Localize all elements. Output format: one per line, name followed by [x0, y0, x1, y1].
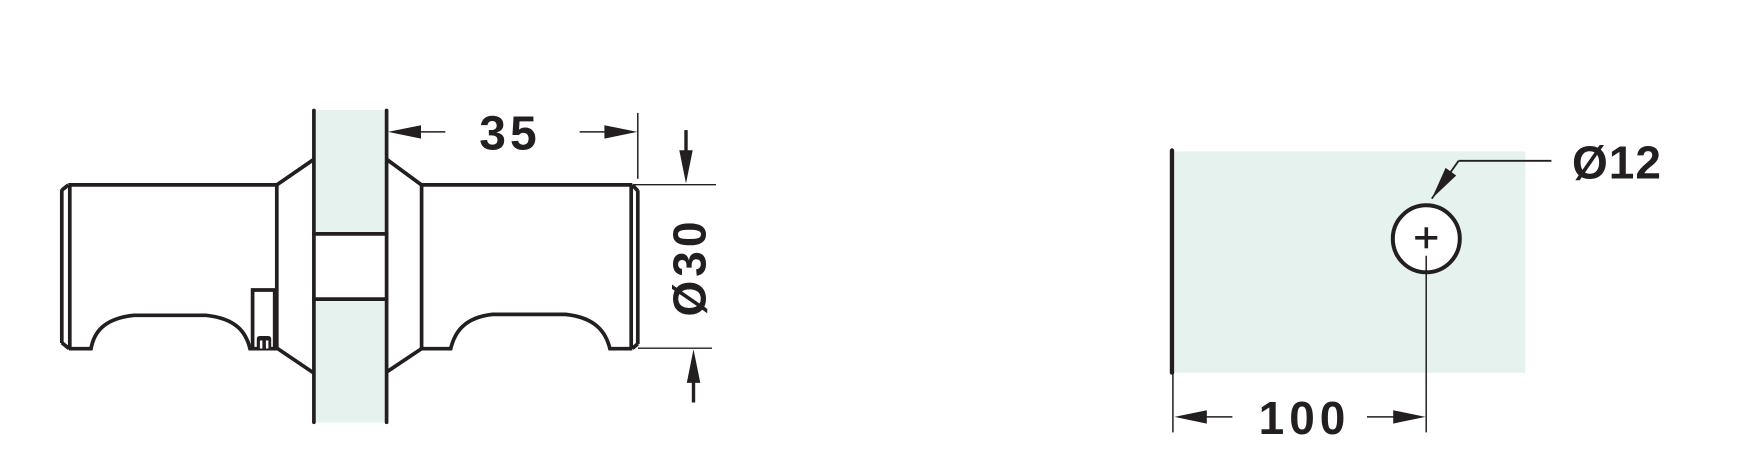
- dimension 100 left arrow: [1175, 410, 1207, 423]
- glass strip left edge: [312, 111, 316, 423]
- left knob face bottom chamfer: [62, 343, 69, 349]
- dimension 100 left extension line: [1172, 373, 1174, 432]
- left knob cone bottom diagonal: [278, 349, 314, 373]
- dimension 35 extension line: [637, 113, 639, 179]
- left knob top edge: [68, 183, 276, 187]
- left knob inner face line (cone junction): [275, 185, 279, 349]
- right knob cone top diagonal: [387, 159, 422, 185]
- dimension 100 right arrow: [1393, 410, 1425, 423]
- right knob face outer line: [636, 190, 640, 344]
- left knob face inner line: [68, 186, 72, 349]
- drill hole cross horizontal: [1415, 236, 1437, 240]
- right knob top edge: [422, 183, 633, 187]
- hole leader diagonal: [1432, 161, 1459, 199]
- front view glass left edge: [1170, 151, 1174, 373]
- latch pin comb detail: [257, 336, 271, 349]
- dimension D30 bottom arrow: [687, 349, 701, 383]
- hole leader arrow: [1432, 168, 1456, 199]
- right knob inner face line (cone junction): [420, 185, 424, 349]
- spindle band bottom line: [312, 297, 388, 301]
- drill hole circle: [1393, 205, 1460, 272]
- glass strip right edge: [385, 111, 389, 423]
- right knob cone bottom diagonal: [387, 349, 422, 372]
- dimension 35 right arrow: [604, 125, 637, 138]
- left knob face top chamfer: [62, 185, 69, 190]
- svg-text:35: 35: [479, 108, 540, 161]
- dimension 35 left arrow: [388, 125, 421, 138]
- dimension D30 bottom extension line: [638, 347, 712, 349]
- svg-text:Ø12: Ø12: [1572, 137, 1662, 189]
- left knob face outer line: [60, 190, 64, 344]
- hole leader horizontal: [1459, 160, 1552, 162]
- spindle gap white band: [312, 236, 390, 298]
- front view glass panel fill: [1175, 151, 1525, 372]
- svg-text:100: 100: [1259, 392, 1351, 444]
- spindle band top line: [312, 232, 388, 236]
- dimension D30 top extension line: [634, 184, 717, 186]
- dimension D30 top arrow: [684, 130, 687, 152]
- left knob bottom edge and finger arch: [69, 315, 278, 348]
- hole center extension line: [1425, 256, 1427, 433]
- right knob bottom edge and finger arch: [422, 314, 633, 348]
- latch pin housing rectangle: [253, 290, 275, 349]
- drill hole cross vertical: [1425, 227, 1429, 248]
- right knob face bottom chamfer: [632, 344, 637, 349]
- left knob cone top diagonal: [277, 159, 314, 185]
- glass panel fill (side view strip): [314, 110, 387, 423]
- right knob face top chamfer: [632, 185, 638, 191]
- right knob face inner line: [629, 185, 633, 349]
- svg-text:Ø30: Ø30: [664, 218, 716, 317]
